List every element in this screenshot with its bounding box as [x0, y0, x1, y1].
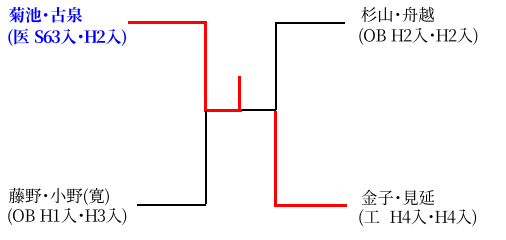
bracket line: top-right team vertical drop (black) — [275, 22, 277, 110]
bracket line: left semifinal joiner horizontal red segment — [204, 109, 242, 112]
bracket line: bottom-left team vertical rise (black) — [205, 111, 207, 204]
bracket line: champion stub vertical (red) — [238, 76, 241, 111]
team info (工 H4入・H4入) — [359, 209, 476, 226]
team info (OB H1入・H3入) — [8, 208, 126, 225]
team info (OB H2入・H2入) — [359, 28, 477, 45]
bracket line: bottom-right team horizontal (red winner path) — [274, 204, 347, 207]
team name 菊池・古泉 (blue, winners) — [9, 7, 82, 23]
team info (医 S63入・H2入) — [8, 29, 126, 46]
bracket line: top-left team vertical drop (red winner path) — [204, 21, 207, 111]
team name 金子・見延 — [361, 190, 434, 205]
bracket line: top-left team horizontal (red winner path) — [128, 21, 207, 24]
team name 藤野・小野(寛) — [9, 188, 109, 205]
team name 杉山・舟越 — [361, 7, 434, 22]
bracket line: bottom-left team horizontal (black) — [137, 204, 206, 206]
bracket line: final joiner horizontal black segment — [242, 109, 276, 111]
bracket line: top-right team horizontal (black) — [275, 22, 345, 24]
bracket line: bottom-right team vertical rise (red winner path) — [274, 111, 277, 207]
